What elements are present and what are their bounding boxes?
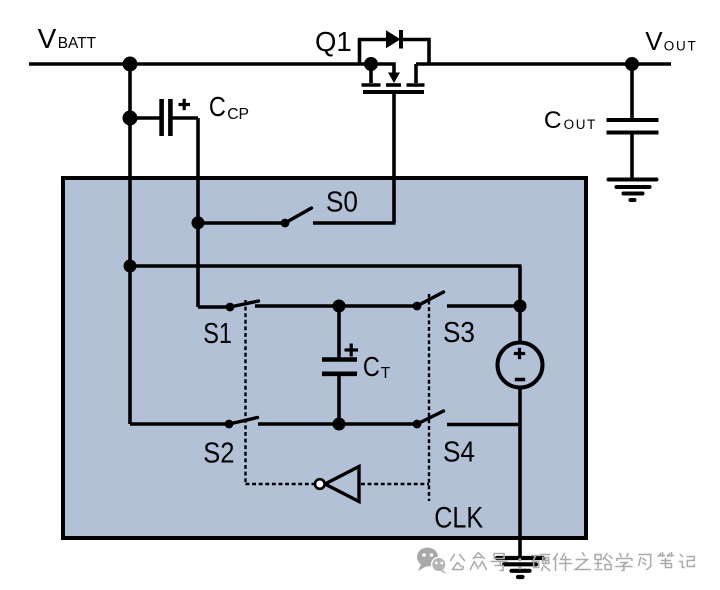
- svg-text:OUT: OUT: [564, 117, 597, 132]
- svg-text:CLK: CLK: [434, 501, 483, 535]
- svg-text:CP: CP: [227, 106, 249, 123]
- svg-text:V: V: [38, 23, 57, 54]
- svg-text:S4: S4: [443, 435, 475, 468]
- svg-text:C: C: [209, 92, 226, 122]
- svg-text:OUT: OUT: [664, 38, 698, 53]
- svg-text:T: T: [381, 365, 391, 382]
- svg-text:S2: S2: [203, 436, 234, 469]
- svg-text:V: V: [645, 26, 663, 56]
- svg-text:C: C: [544, 107, 562, 134]
- svg-text:S0: S0: [326, 185, 358, 218]
- svg-text:S1: S1: [203, 316, 232, 349]
- svg-text:S3: S3: [443, 316, 475, 349]
- svg-text:Q1: Q1: [315, 26, 352, 57]
- svg-text:BATT: BATT: [58, 35, 97, 52]
- svg-text:C: C: [363, 352, 380, 382]
